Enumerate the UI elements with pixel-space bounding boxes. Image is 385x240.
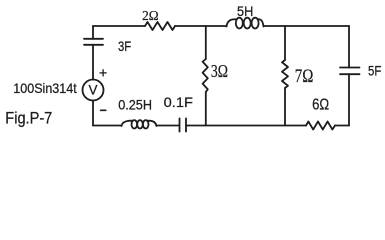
svg-text:5H: 5H [237,4,253,19]
inductor L 0.25H [122,121,133,126]
wire 3-ohm branch lower [205,92,207,126]
svg-text:V: V [88,83,97,98]
wire top left (node to 2-ohm) [93,25,145,27]
wire 3-ohm branch upper [205,26,207,59]
wire bottom right [335,125,349,127]
svg-text:2Ω: 2Ω [142,9,159,24]
svg-text:5F: 5F [368,63,381,79]
svg-text:6Ω: 6Ω [312,97,329,114]
resistor R 2-ohm [145,22,175,30]
wire cap to source [92,45,94,80]
inductor L 5H [227,19,237,26]
wire left branch upper [92,26,94,39]
svg-text:3F: 3F [118,38,131,54]
wire 0.25H to 0.1F [157,125,180,127]
resistor R 7-ohm [282,60,288,88]
wire 7-ohm branch upper [284,26,286,60]
capacitor C 3F [84,38,103,40]
wire top right (5H to right corner) [264,25,350,27]
svg-text:3Ω: 3Ω [211,61,228,81]
svg-text:0.1F: 0.1F [164,94,193,110]
source polarity minus [101,109,106,111]
wire right branch lower [348,74,350,125]
source polarity plus [100,70,106,76]
source V circle [83,80,104,101]
capacitor C 5F [340,67,360,69]
wire source to bottom [92,101,94,126]
wire top middle (2-ohm to 5H) [175,25,227,27]
resistor R 3-ohm [203,59,208,92]
wire 7-ohm branch lower [284,88,286,126]
resistor R 6-ohm [306,122,335,130]
svg-text:7Ω: 7Ω [295,66,314,87]
wire bottom left [93,125,122,127]
svg-text:0.25H: 0.25H [118,96,152,112]
svg-text:100Sin314t: 100Sin314t [13,80,76,96]
svg-text:Fig.P-7: Fig.P-7 [5,109,52,128]
capacitor C 0.1F [179,118,181,131]
wire bottom middle [186,125,306,127]
wire right branch upper [348,26,350,68]
